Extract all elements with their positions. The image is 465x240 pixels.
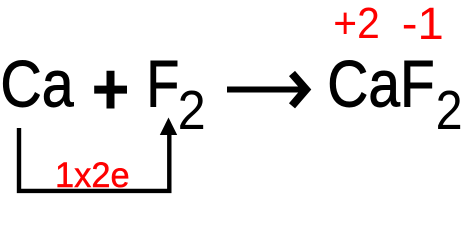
- svg-text:CaF: CaF: [327, 47, 434, 121]
- svg-text:1x2e: 1x2e: [55, 155, 130, 195]
- svg-text:F: F: [146, 47, 179, 121]
- svg-text:-1: -1: [402, 0, 444, 49]
- svg-text:2: 2: [436, 79, 463, 141]
- svg-text:+2: +2: [333, 0, 380, 48]
- svg-text:2: 2: [178, 79, 206, 141]
- svg-text:Ca: Ca: [0, 47, 73, 121]
